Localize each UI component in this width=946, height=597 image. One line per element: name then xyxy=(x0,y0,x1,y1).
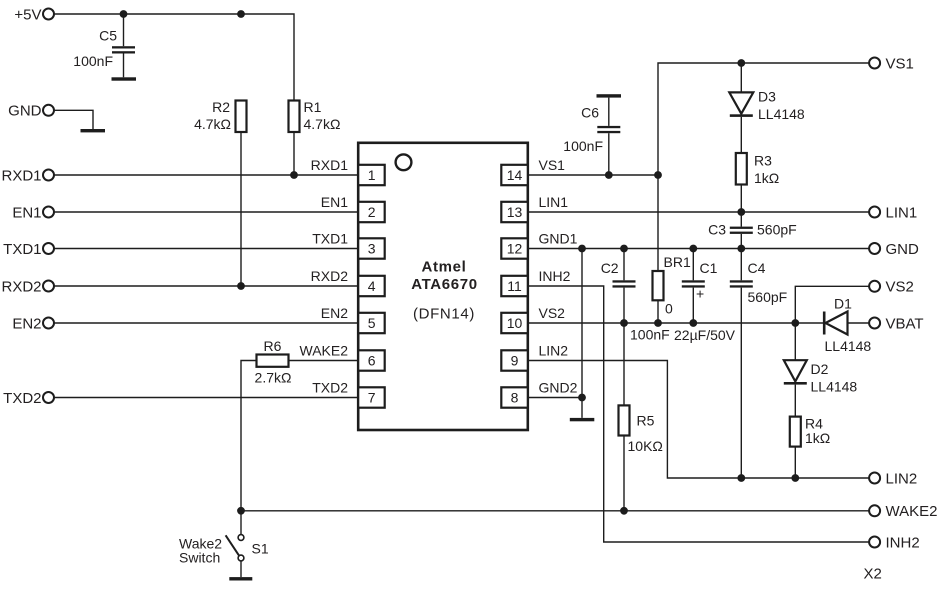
junction GND riser xyxy=(578,245,586,253)
wire GND down branch xyxy=(581,249,583,418)
svg-text:14: 14 xyxy=(507,167,523,183)
svg-text:Switch: Switch xyxy=(179,550,220,566)
pin 2 xyxy=(321,194,385,222)
svg-text:LIN2: LIN2 xyxy=(886,470,918,487)
svg-text:R1: R1 xyxy=(304,99,322,115)
svg-text:+5V: +5V xyxy=(14,6,41,23)
svg-text:S1: S1 xyxy=(252,541,269,557)
wire VS2 branch xyxy=(795,286,869,323)
svg-text:WAKE2: WAKE2 xyxy=(886,503,938,520)
wire RXD1 xyxy=(54,174,358,176)
junction VS2 branch xyxy=(791,319,799,327)
svg-text:Atmel: Atmel xyxy=(422,258,467,275)
svg-text:TXD2: TXD2 xyxy=(312,380,348,396)
wire TXD2 xyxy=(54,397,358,399)
svg-text:EN2: EN2 xyxy=(321,305,348,321)
svg-text:12: 12 xyxy=(507,241,523,257)
svg-text:GND1: GND1 xyxy=(539,231,578,247)
svg-text:RXD2: RXD2 xyxy=(1,278,41,295)
junction R5 top xyxy=(620,319,628,327)
junction C4 LIN2 xyxy=(737,474,745,482)
wire R1 bottom xyxy=(293,132,295,175)
svg-text:4.7kΩ: 4.7kΩ xyxy=(304,116,341,132)
resistor BR1 xyxy=(653,175,691,323)
svg-text:C2: C2 xyxy=(601,260,619,276)
svg-text:RXD2: RXD2 xyxy=(311,268,349,284)
pin 3 xyxy=(312,231,384,259)
wire GND2 pin8 xyxy=(528,397,582,399)
wire GND line xyxy=(528,248,870,250)
svg-text:6: 6 xyxy=(368,353,376,369)
op-amp U1 ATA6670 body xyxy=(358,143,528,430)
ground below S1 xyxy=(229,577,252,580)
svg-text:C4: C4 xyxy=(748,260,766,276)
ground below C5 xyxy=(112,77,137,80)
svg-text:D2: D2 xyxy=(811,361,829,377)
junction C1 bottom xyxy=(689,319,697,327)
wire LIN2 route xyxy=(528,361,870,479)
terminal EN2 xyxy=(12,315,54,332)
wire +5V rail xyxy=(54,14,294,101)
svg-text:GND: GND xyxy=(886,241,920,258)
svg-text:0: 0 xyxy=(665,301,673,317)
pin 5 xyxy=(321,305,385,333)
pin 14 xyxy=(501,157,565,185)
svg-text:9: 9 xyxy=(511,353,519,369)
svg-text:RXD1: RXD1 xyxy=(311,157,349,173)
diode D3 xyxy=(729,63,805,153)
ground below GND2 xyxy=(570,418,595,421)
svg-text:100nF: 100nF xyxy=(630,327,670,343)
svg-text:RXD1: RXD1 xyxy=(1,167,41,184)
terminal WAKE2 xyxy=(869,503,937,520)
wire R3 to LIN1 xyxy=(740,185,742,213)
svg-text:D1: D1 xyxy=(834,296,852,312)
svg-text:LL4148: LL4148 xyxy=(811,379,858,395)
svg-text:560pF: 560pF xyxy=(748,289,788,305)
wire TXD1 xyxy=(54,248,358,250)
svg-text:GND2: GND2 xyxy=(539,380,578,396)
svg-text:2: 2 xyxy=(368,204,376,220)
resistor R6 xyxy=(255,338,292,385)
terminal GND xyxy=(8,103,54,120)
terminal RXD2 xyxy=(1,278,54,295)
svg-text:EN1: EN1 xyxy=(321,194,348,210)
terminal RXD1 xyxy=(1,167,54,184)
terminal EN1 xyxy=(12,204,54,221)
resistor R5 xyxy=(619,323,663,511)
junction C2 top xyxy=(620,245,628,253)
pin 10 xyxy=(501,305,565,333)
capacitor C5 xyxy=(73,14,135,77)
svg-text:100nF: 100nF xyxy=(73,53,113,69)
wire R2 bottom xyxy=(240,132,242,286)
pin 8 xyxy=(501,380,577,408)
wire R6 left down to WAKE2 xyxy=(241,361,257,511)
wire VS1 pin line xyxy=(528,174,658,176)
svg-text:TXD2: TXD2 xyxy=(3,390,41,407)
terminal LIN2 xyxy=(869,470,917,487)
svg-text:LIN2: LIN2 xyxy=(539,343,569,359)
resistor R4 xyxy=(790,416,830,479)
svg-text:1: 1 xyxy=(368,167,376,183)
junction R2 tap xyxy=(237,10,245,18)
pin 1 xyxy=(311,157,385,185)
svg-text:(DFN14): (DFN14) xyxy=(413,305,475,322)
svg-text:1kΩ: 1kΩ xyxy=(754,170,779,186)
svg-text:10KΩ: 10KΩ xyxy=(628,438,663,454)
terminal TXD2 xyxy=(3,390,54,407)
svg-text:13: 13 xyxy=(507,204,523,220)
terminal VS2 xyxy=(869,279,914,296)
svg-text:VS2: VS2 xyxy=(539,305,566,321)
wire INH2 route xyxy=(528,286,870,542)
resistor R1 xyxy=(289,99,341,132)
pin 6 xyxy=(300,343,385,371)
svg-text:GND: GND xyxy=(8,103,42,120)
pin 11 xyxy=(501,268,570,296)
junction C1 top xyxy=(689,245,697,253)
wire GND terminal xyxy=(54,110,93,129)
junction C5 tap xyxy=(120,10,128,18)
svg-text:VS1: VS1 xyxy=(886,55,914,72)
ground at GND terminal xyxy=(81,129,106,132)
svg-text:TXD1: TXD1 xyxy=(3,241,41,258)
pin 13 xyxy=(501,194,568,222)
junction VS1 riser xyxy=(654,171,662,179)
svg-text:INH2: INH2 xyxy=(886,534,920,551)
pin 9 xyxy=(501,343,568,371)
pin 12 xyxy=(501,231,577,259)
svg-text:R3: R3 xyxy=(754,153,772,169)
pin 4 xyxy=(311,268,385,296)
terminal GND right xyxy=(869,241,919,258)
svg-text:VS2: VS2 xyxy=(886,279,914,296)
svg-text:3: 3 xyxy=(368,241,376,257)
svg-text:BR1: BR1 xyxy=(664,254,691,270)
terminal TXD1 xyxy=(3,241,54,258)
svg-text:1kΩ: 1kΩ xyxy=(805,430,830,446)
svg-text:10: 10 xyxy=(507,315,523,331)
wire WAKE2 line xyxy=(241,510,869,512)
svg-text:C3: C3 xyxy=(708,222,726,238)
junction R1 RXD1 xyxy=(290,171,298,179)
svg-text:TXD1: TXD1 xyxy=(312,231,348,247)
svg-text:D3: D3 xyxy=(758,89,776,105)
svg-text:R5: R5 xyxy=(637,413,655,429)
wire RXD2 xyxy=(54,285,358,287)
svg-text:VBAT: VBAT xyxy=(886,315,924,332)
junction S1 xyxy=(237,507,245,515)
ground above C6 xyxy=(597,94,622,97)
svg-text:7: 7 xyxy=(368,390,376,406)
junction C3 C4 xyxy=(737,245,745,253)
capacitor C6 xyxy=(563,98,620,175)
svg-text:4: 4 xyxy=(368,278,376,294)
svg-text:C6: C6 xyxy=(581,105,599,121)
capacitor C4 xyxy=(730,249,787,479)
wire R6 right to pin 6 xyxy=(289,360,359,362)
junction R5 WAKE2 xyxy=(620,507,628,515)
svg-text:4.7kΩ: 4.7kΩ xyxy=(194,116,231,132)
svg-text:100nF: 100nF xyxy=(563,138,603,154)
svg-text:LL4148: LL4148 xyxy=(825,338,872,354)
svg-text:2.7kΩ: 2.7kΩ xyxy=(255,369,292,385)
svg-text:C5: C5 xyxy=(99,28,117,44)
svg-text:EN1: EN1 xyxy=(12,204,41,221)
svg-text:11: 11 xyxy=(507,278,522,294)
wire EN1 xyxy=(54,211,358,213)
svg-text:R6: R6 xyxy=(264,338,282,354)
svg-text:EN2: EN2 xyxy=(12,315,41,332)
resistor R2 xyxy=(194,99,246,132)
wire VBAT line xyxy=(528,322,823,324)
svg-text:WAKE2: WAKE2 xyxy=(300,343,349,359)
switch S1 xyxy=(179,511,269,577)
pin 7 xyxy=(312,380,384,408)
svg-text:+: + xyxy=(696,286,704,302)
junction BR1 VBAT xyxy=(654,319,662,327)
svg-text:ATA6670: ATA6670 xyxy=(411,276,478,293)
junction R3 LIN1 xyxy=(737,208,745,216)
svg-text:VS1: VS1 xyxy=(539,157,566,173)
svg-text:X2: X2 xyxy=(864,566,882,583)
terminal LIN1 xyxy=(869,204,917,221)
svg-text:R2: R2 xyxy=(212,99,230,115)
junction GND2 pin8 xyxy=(578,394,586,402)
capacitor C1 xyxy=(674,249,736,344)
svg-text:5: 5 xyxy=(368,315,376,331)
wire LIN1 xyxy=(528,211,870,213)
junction C6 tap xyxy=(605,171,613,179)
svg-text:22µF/50V: 22µF/50V xyxy=(674,327,736,343)
diode D1 xyxy=(823,296,872,355)
capacitor C3 xyxy=(708,212,797,249)
svg-text:560pF: 560pF xyxy=(757,222,797,238)
wire EN2 xyxy=(54,322,358,324)
svg-text:INH2: INH2 xyxy=(539,268,571,284)
diode D2 xyxy=(784,323,858,417)
resistor R3 xyxy=(736,153,779,187)
terminal VBAT xyxy=(869,315,923,332)
junction R2 RXD2 xyxy=(237,282,245,290)
junction D3 tap xyxy=(737,59,745,67)
capacitor C2 xyxy=(601,249,670,343)
svg-text:LIN1: LIN1 xyxy=(886,204,918,221)
terminal VS1 xyxy=(869,55,914,72)
junction R4 LIN2 xyxy=(791,474,799,482)
wire VS1 up branch xyxy=(658,63,869,175)
svg-text:C1: C1 xyxy=(700,260,718,276)
svg-text:LL4148: LL4148 xyxy=(758,106,805,122)
terminal +5V xyxy=(14,6,54,23)
terminal INH2 xyxy=(869,534,920,551)
svg-text:8: 8 xyxy=(511,390,519,406)
svg-text:LIN1: LIN1 xyxy=(539,194,569,210)
